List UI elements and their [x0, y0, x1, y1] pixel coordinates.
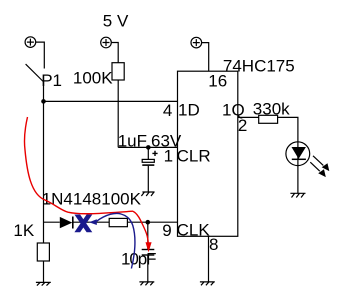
power symbol +V at P1	[25, 37, 36, 48]
wire C2 to ground	[147, 255, 149, 282]
ground under C2	[139, 282, 154, 285]
diode D1 1N4148	[60, 217, 73, 229]
wire R1 down to CLR node	[117, 80, 119, 147]
power symbol 5V	[101, 37, 112, 48]
switch P1 blade	[26, 64, 44, 81]
svg-text:74HC175: 74HC175	[223, 56, 295, 75]
wire R2 to ground	[43, 261, 45, 282]
LED D2 circle	[286, 142, 310, 166]
svg-text:5 V: 5 V	[103, 11, 129, 30]
LED emission arrow 1	[313, 156, 329, 171]
red annotation arrowhead at C2	[146, 242, 152, 252]
wire 5V to R1	[111, 43, 118, 63]
svg-text:CLR: CLR	[177, 146, 211, 165]
wire pin 8 to ground	[208, 236, 210, 281]
LED D2 cathode bar	[292, 158, 306, 160]
wire node to diode anode	[44, 221, 60, 223]
svg-text:100K: 100K	[73, 69, 113, 88]
wire node down to capacitor C1	[147, 147, 149, 159]
LED D2 wire through	[297, 142, 299, 166]
svg-text:10pF: 10pF	[121, 250, 156, 269]
svg-text:4: 4	[163, 101, 172, 120]
resistor R3 100K	[109, 218, 127, 226]
LED emission arrow 2	[310, 162, 326, 177]
resistor R1 100K	[112, 63, 124, 80]
wire R3 to pin 9 (CLK)	[127, 221, 177, 223]
ground under C1	[141, 192, 154, 196]
wire CLR node horizontal to pin 1	[118, 146, 177, 148]
blue annotation curve from C2 to diode	[97, 213, 135, 268]
svg-text:1: 1	[164, 146, 173, 165]
capacitor C1 top plate	[142, 159, 154, 162]
ground under LED	[290, 193, 305, 197]
wire +V to switch P1	[36, 42, 45, 68]
blue annotation arrowhead at diode	[89, 219, 97, 225]
red annotation curve from P1 to C2	[24, 117, 148, 243]
capacitor C1 bottom plate	[142, 164, 154, 166]
svg-text:1K: 1K	[13, 221, 34, 240]
wire LED to ground	[297, 166, 299, 194]
power symbol 5V at pin 16	[191, 37, 202, 48]
junction dot CLK node	[146, 220, 151, 225]
capacitor C2 10pF bottom plate	[142, 254, 155, 256]
wire node to pin 4 (1D)	[44, 100, 178, 102]
node junction dot	[41, 99, 46, 104]
wire pin 2 (1Q)	[238, 116, 259, 118]
wire R4 to LED	[278, 117, 298, 141]
svg-text:P1: P1	[41, 71, 62, 90]
svg-text:2: 2	[238, 116, 247, 135]
resistor R2 1K	[37, 243, 49, 261]
resistor R4 330k	[259, 115, 278, 123]
wire diode to R3	[73, 221, 109, 223]
ground under pin 8	[200, 282, 215, 285]
svg-text:16: 16	[208, 71, 227, 90]
junction dot CLR node	[146, 145, 151, 150]
svg-text:330k: 330k	[253, 100, 290, 119]
LED D2 triangle	[292, 147, 306, 159]
ground under R2	[36, 282, 51, 285]
wire to pin 16	[202, 43, 209, 72]
svg-text:8: 8	[209, 235, 218, 254]
capacitor C2 10pF top plate	[142, 249, 155, 251]
svg-text:1D: 1D	[178, 101, 200, 120]
svg-text:9: 9	[162, 221, 171, 240]
wire node down to capacitor C2	[147, 222, 149, 249]
wire P1 node vertical	[43, 82, 45, 244]
capacitor C1 1uF plus sign	[152, 151, 157, 156]
svg-text:1uF: 1uF	[118, 131, 147, 150]
blue X mark over diode	[74, 215, 92, 233]
svg-text:CLK: CLK	[177, 221, 211, 240]
wire C1 to ground	[147, 166, 149, 192]
IC U1 74HC175 box	[178, 71, 238, 236]
